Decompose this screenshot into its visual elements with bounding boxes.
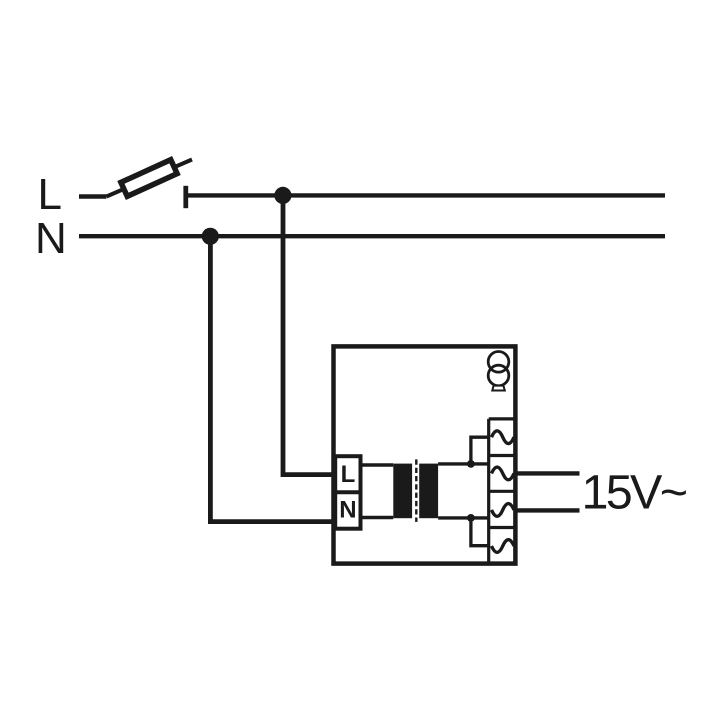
svg-text:L: L xyxy=(38,170,62,219)
svg-text:L: L xyxy=(341,461,356,488)
svg-text:N: N xyxy=(339,496,356,523)
svg-text:15V~: 15V~ xyxy=(582,466,687,520)
svg-text:N: N xyxy=(35,214,67,263)
